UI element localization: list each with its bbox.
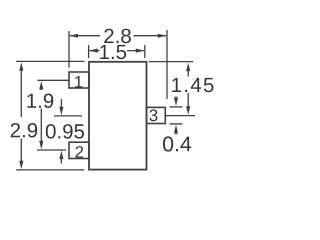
arrowhead dim 2.8 right [158,34,167,38]
extension tick x=144.8 for dim 1.5 right [144,45,146,58]
label 2.9 [11,123,38,138]
dim 1.5 line left segment [89,50,99,52]
label 0.95 [46,124,84,139]
arrowhead dim 1.5 right [136,49,145,53]
extension line pin3 bottom y=123.9 for dim 0.4 [170,123,183,125]
label 3 [149,109,157,121]
arrowhead dim 0.4 down [174,98,178,107]
extension line pin1 centre y=80.3 for dim 1.9 [38,79,69,81]
extension line pin3 top y=106.9 for dim 0.4 [170,106,183,108]
arrowhead dim 1.45 down [186,106,190,115]
arrowhead dim 2.9 up [19,62,23,70]
extension line pin2 centre y=150 shared by 1.9 and 0.95 [37,149,66,151]
extension tick x=88.6 for dim 1.5 left [88,45,90,58]
dim 1.45 upper stem [187,70,189,77]
pin 3 centerline right y=115.6 [165,115,195,117]
pin 2 pad [69,142,89,158]
label 0.4 [163,136,191,151]
dim 2.9 line lower segment [20,139,22,164]
arrowhead dim 2.9 down [19,161,23,170]
arrowhead dim 0.95 down [59,107,63,116]
dim 1.9 line lower segment [40,109,42,144]
arrowhead dim 0.95 up [59,151,63,160]
label 2.8 [104,29,131,44]
extension line body bottom y=169.9 for dim 2.9 [16,169,84,171]
extension line pin3 centre left y=115.9 for dim 0.95 [54,115,82,117]
label 1 [75,76,82,88]
dim 0.95 lower arrow stem [60,157,62,164]
label 1.45 [172,78,213,92]
pin 1 pad [69,72,89,88]
dim 1.5 line right segment [127,50,144,52]
label 1.9 [27,93,53,108]
dim 1.9 line upper segment [40,88,42,91]
dim 0.4 upper arrow stem [175,97,177,100]
arrowhead dim 1.5 left [89,49,98,53]
label 1.5 [100,45,126,59]
extension line body top-left y=61.4 for dim 2.9 [16,60,85,62]
dim 0.4 lower arrow stem [175,132,177,135]
arrowhead dim 2.8 left [70,34,79,38]
extension line top-right y=61.6 for dim 1.45 [149,61,193,63]
arrowhead dim 1.9 up [39,81,43,90]
pin 3 pad [147,107,166,123]
dim 2.9 line upper segment [20,69,22,118]
dim 1.45 lower stem [187,93,189,108]
dim 2.8 line right segment [134,35,167,37]
extension line x=69 for dim 2.8 left [68,31,70,68]
arrowhead dim 0.4 up [174,125,178,134]
dim 2.8 line left segment [70,35,100,37]
arrowhead dim 1.45 up [186,63,190,72]
label 2 [75,146,83,158]
dim 0.95 upper arrow stem [60,99,62,109]
arrowhead dim 1.9 down [39,141,43,150]
package body outline [89,62,147,170]
extension line x=167 for dim 2.8 right [166,30,168,99]
